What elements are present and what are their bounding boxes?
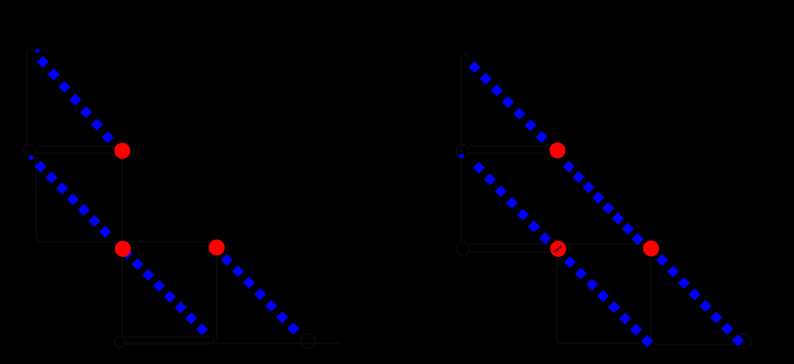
guide maroon baseline left — [122, 342, 340, 344]
match segment R2 lead fragment — [459, 153, 465, 159]
dark slash on dot D5 — [554, 246, 562, 252]
red dot D3 — [209, 240, 225, 256]
red dot D1 — [114, 143, 130, 159]
match segment L1 lead fragment — [35, 48, 40, 53]
guide vline below dot D3 — [216, 256, 218, 341]
guide double line to dot D1 — [36, 146, 114, 153]
guide elbow top-left — [27, 50, 36, 144]
guide elbow top-right — [461, 55, 469, 243]
match segment R2b — [564, 256, 653, 347]
red dot D4 — [550, 142, 566, 158]
match segment L2 lead fragment — [28, 155, 34, 161]
match segment L3 — [221, 254, 299, 335]
guide bottom bar left — [127, 337, 214, 344]
match segment R1b — [563, 161, 644, 245]
guide vline below dot D5 — [557, 258, 641, 344]
red dot D6 — [643, 241, 659, 257]
guide double line to dot D4 — [469, 146, 549, 153]
match segment L2 — [35, 161, 209, 336]
guide circle B — [115, 336, 127, 348]
guide double line to dot D5 — [470, 244, 644, 253]
guide vline below dot D1 — [121, 159, 123, 335]
guide bottom bar right — [654, 344, 736, 346]
red dot D5 — [550, 241, 566, 257]
match segment R1a — [468, 61, 547, 143]
guide circle C — [456, 145, 469, 158]
guide circle F — [737, 334, 751, 348]
match segment R2a — [473, 162, 551, 245]
guide vline below dot D6 — [650, 257, 652, 346]
guide circle A — [23, 144, 35, 156]
guide vline x36 — [36, 157, 213, 242]
guide circle D — [457, 242, 470, 255]
match segment L1 — [37, 56, 114, 143]
red dot D2 — [115, 241, 131, 257]
guide circle E — [301, 334, 315, 348]
match segment R1c — [656, 254, 744, 346]
